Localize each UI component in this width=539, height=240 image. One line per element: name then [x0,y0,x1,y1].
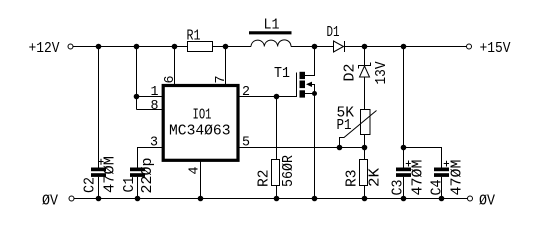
op-amp U1: IC IO1 MC34063 box [163,86,238,161]
svg-text:8: 8 [151,98,159,114]
C2 plus sign [99,159,104,165]
wire ground rail [74,198,468,200]
wire top rail D1 to +15V [345,46,467,48]
wire pin 7 [225,47,227,85]
wire pin 8 [137,109,164,111]
wire C3 to C4 [404,148,442,168]
P1 wiper [340,111,377,148]
svg-text:L1: L1 [264,17,280,34]
node 0V terminal right [468,196,473,201]
diode D1 [334,41,344,52]
junction pin1 [134,94,140,100]
svg-text:56ØR: 56ØR [280,155,297,187]
svg-text:47ØM: 47ØM [102,156,119,193]
svg-text:22Øp: 22Øp [139,158,156,194]
svg-text:6: 6 [162,76,178,84]
wire pin 2 to gate [238,96,297,98]
transistor T1 MOSFET [274,47,317,98]
wire top rail L1 to D1 [291,46,334,48]
wire C2 branch upper [98,47,100,168]
svg-text:C3: C3 [390,180,407,196]
wire pin 4 [200,160,202,199]
capacitor C4 [434,168,449,177]
svg-text:47ØM: 47ØM [449,160,466,196]
wire top rail R1 to L1 [213,46,252,48]
svg-text:C2: C2 [82,177,99,193]
node +15V terminal [467,44,472,49]
wire top rail left [73,46,187,48]
C3 plus sign [406,161,411,167]
wire source down to ground [314,94,316,199]
wire pin1/8 branch [136,47,138,110]
C4 plus sign [444,161,449,167]
svg-text:P1: P1 [337,117,352,134]
capacitor C2 [91,168,106,177]
svg-text:IO1: IO1 [193,107,212,124]
wire C3 branch [403,47,405,168]
potentiometer P1 [361,110,371,135]
svg-text:13V: 13V [373,62,390,85]
svg-text:C1: C1 [121,177,138,193]
junction dots pin5 wire [337,145,407,151]
junction dots ground rail [96,196,445,202]
svg-text:7: 7 [213,76,229,84]
svg-text:3: 3 [150,135,158,151]
svg-text:2K: 2K [367,168,384,187]
capacitor C1 [130,168,145,177]
resistor R2 [272,160,280,186]
svg-text:R2: R2 [256,170,273,188]
wire C2 branch lower [98,177,100,199]
inductor L1 [251,40,291,47]
drain lead [305,47,315,76]
node +12V terminal [68,44,73,49]
svg-text:47ØM: 47ØM [410,160,427,196]
svg-text:+15V: +15V [480,40,511,57]
capacitor C3 [396,168,411,177]
gate bar [296,73,298,98]
wire pin 6 [174,47,176,85]
svg-text:D1: D1 [327,24,340,41]
svg-text:MC34Ø63: MC34Ø63 [169,123,231,140]
channel blocks [300,72,306,98]
body arrow [306,82,312,87]
svg-text:C4: C4 [429,180,446,196]
resistor R1 [188,42,213,52]
svg-text:D2: D2 [342,64,359,82]
wire C1 lower [137,177,139,199]
wire pin 1 [137,96,164,98]
diode D2 zener [364,47,366,66]
svg-text:T1: T1 [274,65,290,82]
junction dots top rail [96,44,407,50]
svg-text:5: 5 [242,135,250,151]
wire R2 branch [276,97,278,160]
svg-text:R1: R1 [187,28,201,45]
svg-text:+12V: +12V [29,40,60,57]
svg-text:ØV: ØV [42,193,58,210]
svg-text:ØV: ØV [479,193,495,210]
svg-text:2: 2 [242,84,250,100]
wire pin 5 [238,147,365,149]
node 0V terminal left [69,196,74,201]
source lead [305,93,315,95]
junction R2 top [274,94,280,100]
wire pin 3 [138,148,164,168]
svg-text:R3: R3 [344,170,361,188]
resistor R3 [360,160,368,186]
svg-text:4: 4 [187,167,203,175]
